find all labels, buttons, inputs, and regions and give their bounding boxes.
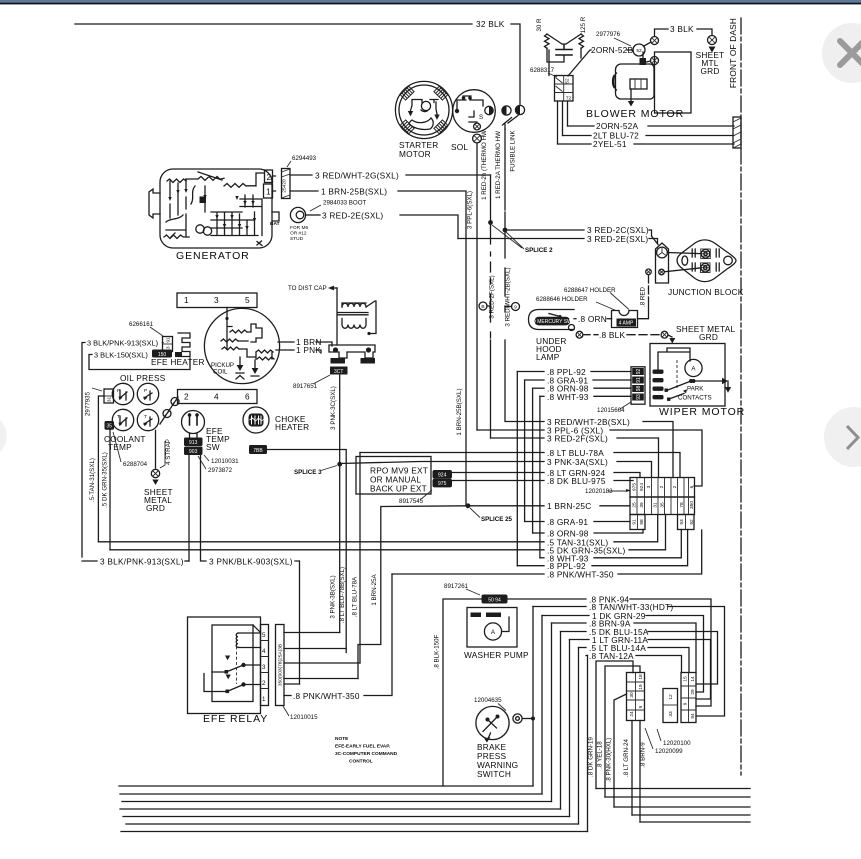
svg-text:1 BRN-25C: 1 BRN-25C [547,501,591,511]
wire 2LT BLU-72 [563,135,735,137]
svg-text:6266161: 6266161 [129,321,154,328]
connector 50/94 [482,595,508,604]
relay arm 2 [227,685,261,692]
svg-text:350(903(78(25A(3B: 350(903(78(25A(3B [278,644,284,686]
svg-text:6294493: 6294493 [292,155,317,162]
svg-text:WIPER MOTOR: WIPER MOTOR [659,406,745,418]
svg-text:CONTROL: CONTROL [349,759,373,765]
svg-text:50 94: 50 94 [488,598,501,604]
wire .8 LT BLU-78A [360,452,544,454]
generator pin 2 [265,170,273,183]
relay code strip [276,625,285,706]
svg-text:.5-TAN-31(SXL): .5-TAN-31(SXL) [89,458,96,502]
inline connectors on gauge feed [160,397,178,424]
wire .8 PPL-92 row [517,565,544,567]
wire .8 TAN/WHT-33 [533,606,586,608]
starter motor [395,81,452,138]
wire 1 RED-2A vertical [504,129,506,230]
svg-text:24: 24 [629,711,635,717]
wire .5 DK BLU-15A [561,631,587,633]
connector 12020099 [627,673,645,721]
wire .5 TAN-31 [98,396,104,542]
EFE heater element [178,333,190,357]
svg-text:.8 PNK/WHT-350: .8 PNK/WHT-350 [293,691,360,701]
svg-text:903: 903 [189,449,198,455]
wire .8 ORN-98 row [533,532,544,534]
svg-text:2YEL-51: 2YEL-51 [593,139,627,149]
svg-text:2977935: 2977935 [85,391,92,416]
svg-text:3 RED-2F(SXL): 3 RED-2F(SXL) [489,275,496,318]
connector 6294493 [282,169,291,199]
svg-text:1: 1 [262,696,266,703]
svg-text:.8 GRA-91: .8 GRA-91 [547,517,588,527]
svg-text:GENERATOR: GENERATOR [176,250,250,262]
wire 32 BLK drop [511,24,520,105]
svg-text:3 PNK-3B(SXL): 3 PNK-3B(SXL) [330,575,337,618]
svg-text:12004635: 12004635 [474,697,502,704]
svg-text:6: 6 [689,485,695,488]
svg-text:92: 92 [636,369,642,375]
svg-text:.8 ORN: .8 ORN [578,314,607,324]
svg-text:3 BLK/PNK-913(SXL): 3 BLK/PNK-913(SXL) [100,557,184,567]
strap 4 STRAP [155,431,157,469]
connector cluster 12020183 [630,478,695,498]
svg-text:.8 DK GRN-19: .8 DK GRN-19 [588,737,595,777]
terminal PPL-6 [473,134,482,143]
svg-text:D MERCURY SW: D MERCURY SW [532,319,572,325]
terminal S plus [474,123,481,130]
coil connector block [329,345,375,358]
connector middle [663,689,678,723]
svg-text:12: 12 [668,694,674,700]
svg-text:29: 29 [690,689,696,695]
wire .5 DK GRN-35 row [110,549,544,551]
wire 2YEL-51 [558,143,735,145]
svg-text:BLOWER MOTOR: BLOWER MOTOR [586,108,684,120]
connector 913/903 [184,438,203,447]
wire 3 RED/WHT-2B [505,230,544,422]
wire 1 BRN-25C [468,505,544,507]
wire 913 vertical [188,455,190,561]
svg-text:6: 6 [245,392,250,402]
svg-text:3 BLK-150(SXL): 3 BLK-150(SXL) [94,351,148,360]
splice 3 [337,462,342,467]
svg-text:GRD: GRD [700,66,719,76]
svg-text:25: 25 [632,502,638,508]
circled B [487,305,491,307]
wire 1 BRN [278,341,294,343]
svg-text:.8 PNK/WHT-350: .8 PNK/WHT-350 [547,570,614,580]
wire 32 BLK [75,23,472,25]
terminal strip 1 3 5 [177,293,257,308]
svg-text:2984033 BOOT: 2984033 BOOT [323,200,367,207]
wire .8 LT GRN-24 [631,721,633,816]
close button [822,23,861,83]
svg-text:SPLICE 3: SPLICE 3 [294,469,322,476]
connector 924/975 [433,470,453,479]
svg-text:3: 3 [214,295,219,305]
ring terminal 3 RED-2E [290,207,305,222]
svg-text:913: 913 [189,440,198,446]
wiper motor box [650,344,725,407]
EFE temp switch [182,411,205,434]
svg-text:FRONT OF DASH: FRONT OF DASH [728,18,738,88]
gauge coolant temp 1 [112,409,133,430]
svg-text:TEMP: TEMP [108,442,132,452]
wire .8 TAN-12A [586,655,588,657]
wire 3 RED-2E to junction [458,238,584,240]
bus line 5 [123,816,570,818]
svg-text:3 RED/WHT-2G(SXL): 3 RED/WHT-2G(SXL) [315,171,399,181]
svg-text:SWITCH: SWITCH [477,769,511,779]
wire .8 PPL-92 [517,371,544,373]
svg-text:2: 2 [184,392,189,402]
wire 78B [267,450,346,653]
wire 3 RED-2C [505,229,584,231]
connector 3CT [330,367,348,375]
blower motor body [616,64,655,99]
svg-text:3 PNK/BLK-903(SXL): 3 PNK/BLK-903(SXL) [209,557,293,567]
bus line 1 [119,785,533,787]
wire .8 GRA-91 [525,379,544,381]
wire 1 BRN-25A [358,506,468,679]
svg-text:98: 98 [636,386,642,392]
wire 2ORN-52A [568,125,735,127]
svg-text:.8 LT BLU-78A: .8 LT BLU-78A [352,576,359,617]
svg-text:6288704: 6288704 [123,461,148,468]
wire 1 RED-2h / 3 RED-2F vertical [490,175,492,438]
svg-text:1: 1 [266,187,271,197]
svg-text:.5 DK GRN-35(SXL): .5 DK GRN-35(SXL) [102,452,109,508]
svg-text:JUNCTION BLOCK: JUNCTION BLOCK [668,287,744,297]
svg-text:72: 72 [566,96,572,102]
starter armature [421,101,430,110]
terminal plus blower [651,57,659,65]
splice 2 dots [488,220,493,225]
connector 6288317 [555,76,574,102]
svg-text:P: P [144,388,147,394]
svg-text:7BB: 7BB [253,448,263,454]
svg-text:SPLICE 2: SPLICE 2 [525,247,553,254]
fuse holder [612,311,638,328]
connector bullet B2 [502,106,511,115]
splice 25 [466,503,471,508]
wire .8 DK BLU-975 [452,480,544,482]
svg-text:.8 DK BLU-975: .8 DK BLU-975 [547,476,606,486]
svg-text:5: 5 [245,295,250,305]
blower ground arrow [630,89,632,101]
svg-text:1: 1 [184,295,189,305]
svg-text:EFE RELAY: EFE RELAY [203,713,268,725]
svg-text:39: 39 [639,502,645,508]
svg-text:12010015: 12010015 [290,714,318,721]
svg-text:6288647 HOLDER: 6288647 HOLDER [564,287,616,294]
connector 35 [105,421,115,430]
svg-text:.8 RED: .8 RED [640,287,647,307]
svg-text:.8 PNK-30(HXL): .8 PNK-30(HXL) [606,738,613,783]
svg-text:6288646 HOLDER: 6288646 HOLDER [536,296,588,303]
svg-text:3 PPL-6(SXL): 3 PPL-6(SXL) [467,191,474,229]
svg-text:NOTE: NOTE [335,736,349,742]
svg-text:18: 18 [638,674,644,680]
relay coil [236,633,238,647]
svg-text:3 PNK-3A(SXL): 3 PNK-3A(SXL) [547,457,608,467]
circled 9 [505,306,512,308]
svg-text:3 RED-2E(SXL): 3 RED-2E(SXL) [587,234,648,244]
svg-text:350: 350 [689,501,695,509]
svg-text:1 BRN-25B(SXL): 1 BRN-25B(SXL) [456,388,463,435]
wire .8 BLK-150F [443,599,482,786]
svg-text:93: 93 [636,394,642,400]
top chrome bar [0,0,861,3]
splice 2 leaders [492,225,524,249]
svg-text:EFE HEATER: EFE HEATER [151,357,205,367]
svg-text:52: 52 [565,78,571,84]
svg-text:.8 LT GRN-24: .8 LT GRN-24 [623,738,630,776]
wire 3 PNK-3A [340,462,544,464]
svg-text:12010031: 12010031 [211,458,239,465]
svg-text:.8 BLK-150F: .8 BLK-150F [434,634,441,669]
svg-text:MOTOR: MOTOR [399,149,431,159]
junction wires [664,253,701,272]
gauge oil press 2 [137,383,158,404]
bus line 2 [120,793,542,795]
wire .8 LT GRN-924 [452,472,544,474]
bus line 3 [122,801,552,803]
bus line 6 [126,823,579,825]
svg-text:4: 4 [262,648,266,655]
brake terminal [513,714,522,723]
relay arm 1 [212,665,261,672]
svg-text:1 RED-2h (THERMO HW: 1 RED-2h (THERMO HW [481,130,488,200]
svg-text:19: 19 [638,684,644,690]
svg-text:.8 WHT-93: .8 WHT-93 [547,392,589,402]
svg-text:91: 91 [166,337,172,343]
svg-text:93: 93 [679,519,685,525]
svg-text:91: 91 [636,377,642,383]
wire .8 DK GRN-19 [596,661,633,789]
capacitor plates [556,50,572,56]
svg-text:T: T [144,414,147,420]
svg-text:2: 2 [672,485,678,488]
wire .8 YEL-18 [605,666,640,797]
svg-text:FUSIBLE LINK: FUSIBLE LINK [510,129,517,171]
wire 78A vertical [359,453,361,664]
wire 3 RED-2F row [491,437,545,439]
wire 3 PNK-3C vertical [339,375,341,633]
svg-text:COIL: COIL [213,369,228,376]
svg-text:B: B [481,304,484,310]
svg-text:3: 3 [646,485,652,488]
wire .8 BLK dashed [576,331,583,338]
blower brush [640,58,647,65]
choke heater [243,407,269,433]
svg-text:125 R: 125 R [580,16,587,33]
svg-text:3 PNK-3C(SXL): 3 PNK-3C(SXL) [330,386,337,430]
dash connector bar [733,117,741,148]
svg-text:2: 2 [262,680,266,687]
svg-text:8917651: 8917651 [293,383,318,390]
svg-text:35: 35 [106,424,112,430]
svg-text:3 RED-2F(SXL): 3 RED-2F(SXL) [547,434,608,444]
wire .8 GRA-91 row [525,521,544,523]
relay pin strip [261,625,269,706]
generator flange [149,189,160,218]
bus line 7 [121,831,588,833]
row verticals to bus [533,607,588,832]
svg-text:12020183: 12020183 [585,488,613,495]
svg-text:3: 3 [262,664,266,671]
junction bar [656,243,669,283]
svg-text:WASHER PUMP: WASHER PUMP [464,650,529,660]
RPO MV9 box [356,457,431,495]
svg-text:12020100: 12020100 [663,740,691,747]
generator body [160,169,272,248]
svg-text:2973872: 2973872 [208,467,233,474]
junction block [677,240,736,282]
BAT tab [272,212,279,221]
svg-text:.8 YEL-18: .8 YEL-18 [597,741,604,769]
bracket 3 BLK-150 [89,355,190,370]
svg-text:924: 924 [438,473,447,479]
svg-text:3 BLK: 3 BLK [670,24,694,34]
svg-text:PARK: PARK [687,386,704,393]
svg-text:31: 31 [653,502,659,508]
sheet metal ground left [151,469,159,477]
svg-text:1 BRN-25A: 1 BRN-25A [371,573,378,605]
wire .8 WHT-93 [540,395,544,397]
gauge oil press 1 [112,383,133,404]
svg-text:.8 BLK: .8 BLK [599,330,625,340]
svg-text:30: 30 [629,692,635,698]
wiper verticals [517,372,540,566]
wiper switch arms [667,381,692,391]
svg-text:31: 31 [107,397,113,403]
svg-text:.8 LT BLU-78B(SXL): .8 LT BLU-78B(SXL) [339,567,346,623]
terminal strip 2 4 6 [178,390,258,404]
underhood lamp [529,310,575,330]
svg-text:4 AMP: 4 AMP [619,321,634,327]
svg-text:924: 924 [639,483,645,491]
svg-text:GRD: GRD [146,503,165,513]
svg-text:14: 14 [690,676,696,682]
svg-text:CONTACTS: CONTACTS [678,395,712,402]
wire .8 PNK/WHT-350 pin1 [284,695,291,697]
distributor [204,308,279,383]
svg-text:2: 2 [659,485,665,488]
svg-text:EFE-EARLY FUEL EVAP.: EFE-EARLY FUEL EVAP. [335,744,390,750]
generator pin 1 [264,184,273,198]
svg-text:.8 BRN-9: .8 BRN-9 [640,742,647,768]
wire 1 LT GRN-11A [570,639,590,641]
svg-text:3 RED-2E(SXL): 3 RED-2E(SXL) [322,211,383,221]
sheet metal ground right [708,36,717,45]
svg-text:91: 91 [632,519,638,525]
svg-text:OIL PRESS: OIL PRESS [120,373,166,383]
svg-text:8917261: 8917261 [444,583,469,590]
svg-text:92: 92 [689,519,695,525]
svg-text:STUD: STUD [290,236,304,242]
wire 1 PNK [276,349,294,351]
svg-text:4 STRAP: 4 STRAP [165,439,172,465]
svg-text:1 BRN-25B(SXL): 1 BRN-25B(SXL) [321,187,387,197]
EFE relay [188,617,261,714]
svg-text:12020099: 12020099 [655,748,683,755]
wire 1 DK GRN-29 [542,615,589,617]
svg-text:975: 975 [438,481,447,487]
svg-text:FOR M6: FOR M6 [290,225,308,231]
svg-text:2ORN-52A: 2ORN-52A [596,121,638,131]
svg-text:TO DIST CAP: TO DIST CAP [288,285,327,292]
svg-text:32 BLK: 32 BLK [476,19,505,29]
generator internals [167,172,264,187]
bracket 3 BLK/PNK-913 top [82,343,97,562]
svg-text:BAT: BAT [270,221,280,227]
solenoid SOL [453,90,496,133]
relay pin wires [284,632,340,634]
svg-text:GRD: GRD [699,332,718,342]
terminal plus A [651,37,659,45]
wire 3 PPL-6 vertical [476,143,478,430]
washer pump [467,608,517,648]
brake press warning switch [476,706,509,739]
wire .8 BRN-9A [552,622,587,624]
svg-text:SPLICE 25: SPLICE 25 [481,516,513,523]
wire .8 RED [646,269,652,275]
svg-text:9: 9 [514,305,517,311]
connector 92/91/98/93 [631,367,645,404]
svg-text:3CT: 3CT [334,369,343,375]
wire .8 ORN [574,318,576,320]
connector 150 [152,350,172,358]
svg-text:3 BLK/PNK-913(SXL): 3 BLK/PNK-913(SXL) [87,339,158,348]
svg-text:9: 9 [683,702,689,705]
svg-text:9: 9 [638,705,644,708]
svg-text:78: 78 [679,502,685,508]
wire .8 ORN-98 [533,387,544,389]
fusible link [503,116,519,130]
junction slots [692,249,719,271]
wire 3 PPL-6 row [477,429,544,431]
blower mount rect [655,52,692,113]
svg-text:25420: 25420 [282,179,288,193]
gauge coolant temp 2 [137,409,158,430]
wire .8 PNK-30 [614,694,627,807]
connector 12020100 [681,673,696,723]
svg-text:SW: SW [206,442,220,452]
svg-text:4: 4 [214,392,219,402]
svg-text:35: 35 [660,502,666,508]
wire .8 PNK-94 [508,598,587,600]
svg-text:52: 52 [636,48,642,54]
svg-text:OR #12: OR #12 [290,231,307,237]
right bus lines [596,788,750,790]
wire 903 vertical [201,455,207,561]
svg-text:98: 98 [639,519,645,525]
bus line 4 [120,808,561,810]
connector 52 [633,44,645,56]
svg-text:975: 975 [632,483,638,491]
resistor pack network [547,34,581,49]
svg-text:BACK UP EXT: BACK UP EXT [370,484,427,494]
wire .8 PNK/WHT-350 row [392,573,544,575]
svg-text:2977976: 2977976 [596,31,621,38]
svg-text:6288317: 6288317 [530,67,555,74]
wire .5 LT BLU-14A [579,647,587,649]
svg-text:1 RED-2A THERMO HW: 1 RED-2A THERMO HW [495,131,502,199]
connector 31 [104,389,114,403]
nav arrow right [824,407,861,467]
